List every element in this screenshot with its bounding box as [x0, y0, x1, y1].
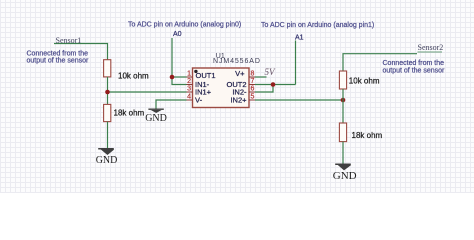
power 5V on pin 8 [255, 67, 276, 77]
wire feedback OUT2 to IN2- pin 6 [255, 85, 273, 93]
wire left divider: 10k bottom to 18k top [107, 77, 109, 105]
svg-text:NJM4556AD: NJM4556AD [213, 58, 261, 65]
ground middle GND (V-) [145, 109, 167, 124]
svg-text:10k ohm: 10k ohm [118, 71, 149, 80]
junction node A0/OUT1 [170, 75, 175, 80]
svg-text:1: 1 [187, 71, 191, 78]
annotation left: connected from the output of the sensor [27, 50, 90, 64]
svg-text:GND: GND [96, 155, 118, 166]
ground left GND [96, 148, 118, 166]
pin 4 V- [187, 94, 203, 105]
svg-text:Connected from the: Connected from the [27, 50, 89, 57]
svg-text:A0: A0 [173, 31, 182, 38]
resistor 18k ohm (right) [339, 123, 382, 142]
pin 3 IN1+ [187, 86, 212, 97]
svg-text:GND: GND [145, 113, 167, 124]
svg-text:Sensor2: Sensor2 [418, 43, 444, 52]
svg-text:8: 8 [251, 71, 255, 78]
svg-text:2: 2 [187, 78, 191, 85]
svg-text:GND: GND [333, 170, 357, 182]
wire Sensor1 net horizontal [54, 44, 108, 61]
pin 2 IN1- [187, 78, 210, 89]
wire 18k left bottom to ground [107, 122, 109, 149]
junction node A1/OUT2 [271, 82, 276, 87]
svg-text:output of the sensor: output of the sensor [383, 67, 446, 74]
svg-text:5V: 5V [265, 67, 277, 77]
svg-text:V+: V+ [235, 69, 245, 78]
wire OUT1 pin 1 to A0 junction [172, 76, 187, 78]
wire feedback OUT1 to IN1- pin 2 [172, 77, 187, 85]
svg-text:To ADC pin on Arduino (analog: To ADC pin on Arduino (analog pin1) [261, 22, 374, 29]
wire left divider node to IN1+ pin 3 [108, 91, 187, 93]
svg-text:OUT1: OUT1 [196, 71, 216, 80]
wire IN2+ pin 5 to right divider node [255, 99, 343, 101]
resistor 10k ohm (left) [104, 60, 149, 81]
resistor 18k ohm (left) [104, 104, 145, 121]
svg-text:output of the sensor: output of the sensor [27, 58, 90, 65]
wire A1 vertical [295, 41, 297, 85]
wire A0 vertical [171, 38, 173, 77]
svg-text:18k ohm: 18k ohm [114, 109, 145, 118]
ground right GND [333, 164, 357, 183]
svg-text:5: 5 [251, 94, 255, 101]
wire V- pin 4 to middle ground [156, 100, 187, 109]
pin 8 V+ [235, 69, 255, 78]
svg-text:IN2+: IN2+ [230, 95, 247, 104]
net label Sensor2 [418, 43, 444, 52]
wire 18k right bottom to ground [342, 142, 344, 164]
svg-text:10k ohm: 10k ohm [349, 77, 380, 86]
wire OUT2 pin 7 to A1 corner [255, 84, 296, 86]
pin 6 IN2- [232, 86, 255, 97]
svg-text:Sensor1: Sensor1 [56, 36, 82, 45]
op-amp U1 NJM4556AD body [193, 53, 261, 108]
pin 5 IN2+ [230, 94, 255, 105]
junction left divider node [105, 90, 110, 95]
svg-text:7: 7 [251, 78, 255, 85]
pin 7 OUT2 [226, 78, 255, 89]
resistor 10k ohm (right) [339, 71, 379, 89]
svg-text:18k ohm: 18k ohm [352, 131, 383, 140]
wire Sensor2 net horizontal [343, 54, 417, 71]
svg-text:6: 6 [251, 86, 255, 93]
annotation right: connected from the output of the sensor [383, 60, 446, 75]
svg-text:4: 4 [187, 94, 191, 101]
svg-text:3: 3 [187, 86, 191, 93]
junction right divider node [341, 98, 346, 103]
pin 1 OUT1 [187, 71, 216, 81]
svg-text:A1: A1 [295, 34, 304, 41]
svg-text:Connected from the: Connected from the [383, 60, 445, 67]
svg-text:V-: V- [195, 95, 203, 104]
svg-text:To ADC pin on Arduino (analog: To ADC pin on Arduino (analog pin0) [128, 21, 241, 28]
wire right divider: 10k bottom to 18k top [342, 89, 344, 123]
